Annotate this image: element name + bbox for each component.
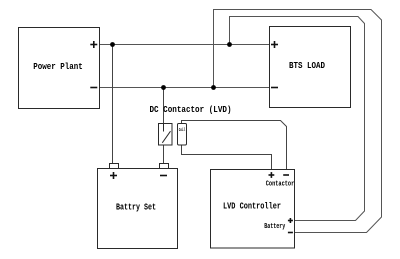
- battery - post: [160, 164, 169, 169]
- wire - bus to contactor switch: [163, 88, 165, 125]
- wire coil top to LVD Contactor -: [182, 121, 287, 171]
- wire + bus from Power Plant + to BTS LOAD +: [99, 44, 269, 46]
- BTS LOAD - terminal label: [271, 87, 278, 89]
- junction node on - bus at contactor drop: [161, 85, 166, 90]
- wire - bus from Power Plant - to BTS LOAD -: [99, 87, 269, 89]
- svg-text:Battry Set: Battry Set: [116, 202, 156, 213]
- svg-text:Coil: Coil: [179, 127, 186, 133]
- LVD Battery pin name: [264, 223, 286, 231]
- contactor switch K1: [159, 124, 173, 146]
- svg-text:Contactor: Contactor: [266, 181, 295, 189]
- Power Plant - terminal label: [90, 87, 97, 89]
- svg-text:Battery: Battery: [264, 223, 286, 231]
- svg-text:Power Plant: Power Plant: [33, 61, 83, 72]
- wire contactor switch to battery - terminal: [163, 145, 165, 164]
- LVD battery - pin label: [288, 232, 293, 234]
- battery + label: [110, 172, 117, 179]
- DC Contactor (LVD) title: [150, 104, 232, 115]
- Power Plant + terminal label: [90, 41, 97, 48]
- svg-text:DC Contactor (LVD): DC Contactor (LVD): [150, 104, 232, 115]
- svg-text:BTS LOAD: BTS LOAD: [289, 60, 325, 71]
- LVD Controller block: [211, 170, 295, 249]
- Battry Set block: [98, 169, 178, 249]
- LVD contactor - pin label: [283, 174, 289, 176]
- LVD Contactor pin name: [266, 181, 295, 189]
- wire outer loop - bus to LVD Battery -: [214, 10, 382, 233]
- BTS LOAD + terminal label: [271, 41, 278, 48]
- wire battery + drop: [112, 45, 114, 164]
- Power Plant block: [19, 28, 100, 109]
- battery - label: [160, 175, 167, 177]
- LVD battery + pin label: [288, 218, 293, 223]
- contactor coil: [178, 124, 187, 146]
- junction node on - bus at outer loop: [211, 85, 216, 90]
- wire middle loop + bus to LVD Battery +: [230, 17, 365, 221]
- junction node on + bus at battery drop: [110, 42, 115, 47]
- battery + post: [110, 164, 119, 169]
- wire coil bottom to LVD Contactor +: [182, 145, 272, 170]
- LVD contactor + pin label: [269, 172, 275, 178]
- svg-text:LVD Controller: LVD Controller: [223, 201, 281, 212]
- BTS LOAD block: [270, 27, 351, 108]
- junction node on + bus at middle loop: [227, 42, 232, 47]
